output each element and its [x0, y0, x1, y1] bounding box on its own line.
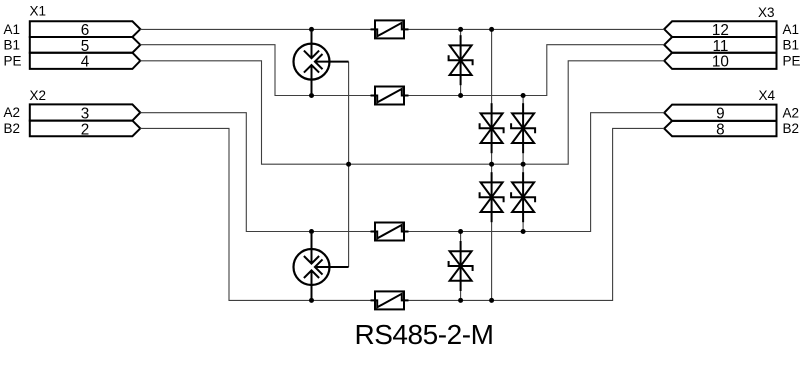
svg-text:11: 11 [712, 38, 728, 55]
wire TVS column A1-PE [491, 29, 493, 164]
connector X2 pin 3 (A2) [30, 104, 141, 120]
junction B2-GDT2 bottom [309, 298, 314, 303]
svg-text:8: 8 [716, 121, 725, 138]
svg-text:X1: X1 [30, 4, 47, 19]
wire row8 right and up to X4.9 [404, 113, 664, 232]
svg-text:4: 4 [81, 54, 90, 71]
svg-text:X2: X2 [30, 88, 47, 103]
junction A2-GDT2 top [309, 229, 314, 234]
TVS diode V2 (A1-PE) [480, 103, 504, 153]
gas discharge tube F2 (A2/B2/PE) [294, 234, 349, 299]
svg-text:PE: PE [4, 53, 22, 68]
svg-text:5: 5 [81, 38, 90, 55]
connector X4 pin 8 (B2) [664, 121, 776, 136]
svg-text:A1: A1 [783, 22, 800, 37]
wire TVS column A1-B1 [460, 29, 462, 95]
connector X2 pin 2 (B2) [30, 121, 141, 137]
svg-text:A1: A1 [4, 22, 21, 37]
svg-text:10: 10 [712, 54, 729, 71]
resistor R4 (B2 path) [371, 291, 409, 309]
junction B1-V3 [521, 93, 526, 98]
wire A2 left: X2.3 down to row8 [140, 113, 311, 232]
junction B2-V4 [489, 298, 494, 303]
svg-text:B2: B2 [783, 121, 800, 136]
wire TVS column A2-B2 [460, 232, 462, 301]
wire TVS column B1-PE [522, 96, 524, 165]
junction A1-V1 [458, 27, 463, 32]
junction A1-GDT1 top [309, 27, 314, 32]
TVS diode V4 (PE-B2) [480, 172, 504, 222]
connector X4 pin 9 (A2) [664, 105, 776, 121]
wire PE left: X1.4 down to row7 [140, 61, 348, 164]
gas discharge tube F1 (A1/B1/PE) [294, 32, 349, 94]
wire TVS column PE-B2 [491, 164, 493, 300]
connector X1 pin 4 (PE) [30, 53, 141, 69]
wire row7 right and up to X3.10 [349, 61, 665, 164]
connector X1 pin 6 (A1) [30, 21, 141, 37]
TVS diode V6 (A2-B2) [449, 241, 473, 291]
wire TVS column PE-A2 [522, 164, 524, 231]
junction PE-V2/V4 [489, 162, 494, 167]
wire B2 left: X2.2 down to row9 [140, 128, 311, 300]
svg-text:9: 9 [716, 106, 725, 123]
wire row4: GDT1 bottom to R2 [312, 95, 376, 97]
connector X3 pin 11 (B1) [664, 37, 776, 53]
svg-text:B1: B1 [783, 37, 800, 52]
connector X1 pin 5 (B1) [30, 37, 141, 53]
junction A2-V6 [458, 229, 463, 234]
TVS diode V5 (PE-A2) [511, 172, 535, 222]
wire row4 right and up to X3.11 [404, 45, 664, 96]
svg-text:X3: X3 [758, 5, 775, 20]
TVS diode V1 (A1-B1) [449, 35, 473, 85]
svg-text:B1: B1 [4, 37, 21, 52]
wire PE centre column [348, 62, 350, 267]
svg-text:X4: X4 [758, 88, 775, 103]
junction B2-V6 [458, 298, 463, 303]
TVS diode V3 (B1-PE) [511, 103, 535, 153]
svg-text:A2: A2 [783, 105, 800, 120]
resistor R1 (A1 path) [371, 20, 409, 38]
svg-text:6: 6 [81, 22, 90, 39]
junction A2-V5 [521, 229, 526, 234]
svg-text:2: 2 [81, 121, 90, 138]
wire B1 left: X1.5 down to row4 [140, 45, 311, 96]
wire A1 row: X1.6 to R1 [140, 28, 375, 30]
junction A1-V2 [489, 27, 494, 32]
wire A1 row: R1 to X3.12 [404, 28, 664, 30]
wire row8: GDT2 top to R3 [312, 231, 376, 233]
wire row9 right and up to X4.8 [404, 128, 664, 300]
connector X3 pin 12 (A1) [664, 21, 776, 37]
svg-text:12: 12 [712, 22, 729, 39]
junction B1-GDT1 bottom [309, 93, 314, 98]
junction PE-V3/V5 [521, 162, 526, 167]
svg-text:3: 3 [81, 105, 90, 122]
wire row9: GDT2 bottom to R4 [312, 299, 376, 301]
resistor R2 (B1 path) [371, 87, 409, 105]
junction PE column-row7 [346, 162, 351, 167]
svg-text:B2: B2 [4, 121, 21, 136]
junction B1-V1 [458, 93, 463, 98]
resistor R3 (A2 path) [371, 223, 409, 241]
svg-text:RS485-2-M: RS485-2-M [354, 319, 493, 350]
svg-text:A2: A2 [4, 105, 21, 120]
connector X3 pin 10 (PE) [664, 53, 776, 69]
svg-text:PE: PE [783, 53, 800, 68]
